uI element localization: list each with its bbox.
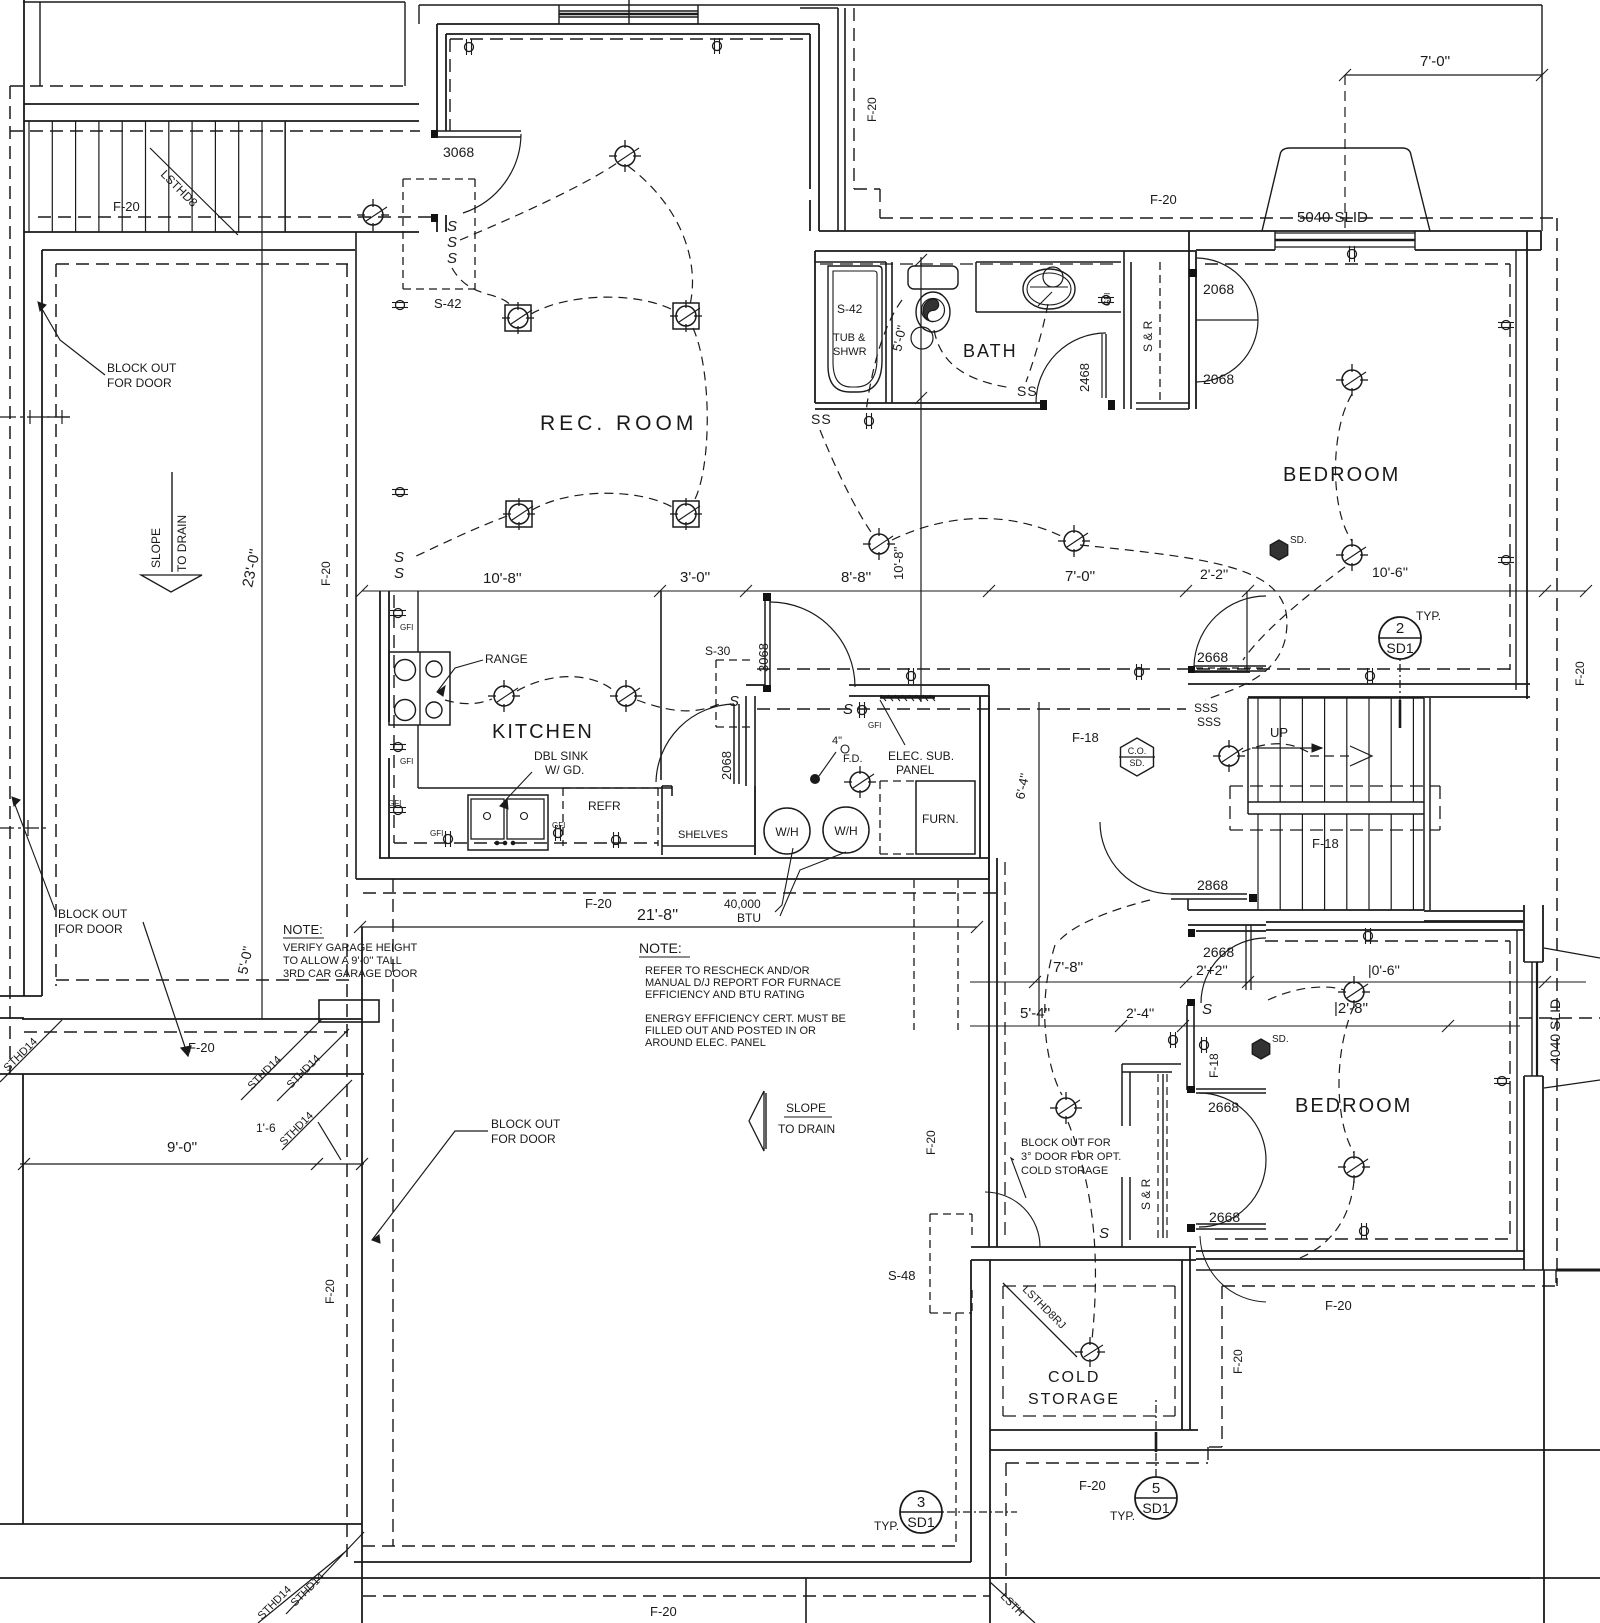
S-48 dashed box — [930, 1213, 972, 1215]
svg-text:BLOCK OUT: BLOCK OUT — [491, 1117, 561, 1131]
svg-text:TYP.: TYP. — [874, 1519, 899, 1533]
svg-text:BEDROOM: BEDROOM — [1295, 1095, 1412, 1117]
dim 7-0 top — [1345, 74, 1542, 76]
svg-text:STORAGE: STORAGE — [1028, 1391, 1120, 1408]
svg-text:ENERGY EFFICIENCY CERT. MUST B: ENERGY EFFICIENCY CERT. MUST BE — [645, 1013, 846, 1025]
bedroom2 SD hexagon — [1252, 1039, 1269, 1059]
stairs landing — [1248, 801, 1424, 803]
svg-text:GFI: GFI — [400, 623, 413, 632]
svg-text:F-20: F-20 — [1231, 1349, 1245, 1374]
bedroom2 south wall — [1196, 1250, 1524, 1252]
svg-text:C.O.: C.O. — [1128, 746, 1147, 756]
dim 21-8 line — [360, 926, 977, 928]
svg-text:FOR DOOR: FOR DOOR — [107, 376, 172, 390]
hall north wall — [849, 684, 989, 686]
stairwell left wall — [23, 0, 25, 250]
svg-text:7'-0'': 7'-0'' — [1420, 53, 1450, 70]
stair hall top wall — [24, 103, 419, 105]
svg-text:5040 SLID: 5040 SLID — [1297, 209, 1368, 226]
svg-text:|2'-8'': |2'-8'' — [1334, 1000, 1368, 1017]
rec room top wall — [437, 23, 819, 25]
kitchen south interior dashed — [394, 842, 658, 844]
svg-text:GFI: GFI — [1103, 293, 1112, 306]
svg-text:S-42: S-42 — [434, 296, 461, 311]
svg-text:FOR DOOR: FOR DOOR — [58, 922, 123, 936]
LSTHD8RJ diagonal — [1003, 1283, 1077, 1357]
svg-text:|0'-6'': |0'-6'' — [1368, 962, 1400, 978]
svg-text:REFER TO RESCHECK AND/OR: REFER TO RESCHECK AND/OR — [645, 965, 810, 977]
range — [389, 652, 450, 725]
rec room lights — [615, 146, 635, 166]
rec room west wall — [436, 24, 438, 131]
svg-text:10'-8'': 10'-8'' — [891, 547, 906, 580]
svg-text:2068: 2068 — [1203, 281, 1234, 297]
svg-text:W/H: W/H — [775, 825, 798, 839]
svg-text:10'-8'': 10'-8'' — [483, 570, 522, 587]
foundation dashed mid — [880, 217, 1557, 219]
door 2668 bedroom1 — [1194, 665, 1266, 667]
section markers left — [0, 827, 48, 829]
bottom right dashed rect — [1222, 1285, 1556, 1287]
kitchen lights — [494, 686, 514, 706]
dim 6-4 vertical — [1038, 702, 1040, 1026]
svg-text:F-20: F-20 — [188, 1040, 215, 1055]
upper wall strip right of rec room — [837, 8, 839, 231]
bedroom1 window 5040 — [1275, 232, 1415, 234]
bedroom2 east wall — [1516, 930, 1518, 1251]
svg-text:2'-2'': 2'-2'' — [1200, 566, 1228, 582]
svg-text:F-20: F-20 — [865, 97, 879, 122]
svg-text:F-20: F-20 — [650, 1604, 677, 1619]
svg-text:2868: 2868 — [1197, 877, 1228, 893]
svg-text:S: S — [1099, 1225, 1109, 1242]
svg-text:S & R: S & R — [1141, 320, 1155, 352]
svg-text:5'-4'': 5'-4'' — [1020, 1005, 1050, 1022]
svg-text:REC. ROOM: REC. ROOM — [540, 412, 697, 435]
svg-text:COLD STORAGE: COLD STORAGE — [1021, 1165, 1108, 1177]
svg-text:S: S — [394, 565, 404, 582]
svg-text:TO DRAIN: TO DRAIN — [175, 515, 189, 572]
blockout dashed top — [56, 979, 355, 981]
svg-text:VERIFY GARAGE HEIGHT: VERIFY GARAGE HEIGHT — [283, 942, 418, 954]
svg-text:TUB &: TUB & — [833, 332, 866, 344]
svg-text:S: S — [447, 234, 457, 251]
hall long wall — [988, 696, 990, 1247]
S-42 dashed box — [402, 179, 404, 289]
svg-text:GFI: GFI — [388, 799, 401, 808]
stair diagonal LSTHD8 — [150, 148, 238, 235]
slope to drain right — [749, 1091, 764, 1151]
dashed chase — [853, 8, 855, 189]
optional cold storage dashed wall — [955, 1313, 957, 1546]
bedroom2 outlets — [1364, 932, 1373, 941]
svg-text:REFR: REFR — [588, 799, 621, 813]
svg-text:F-20: F-20 — [323, 1279, 337, 1304]
svg-text:2068: 2068 — [719, 751, 734, 780]
svg-text:SD.: SD. — [1290, 535, 1307, 546]
door 2668 bottom arc — [1200, 1236, 1266, 1302]
rec circuit curves — [460, 163, 617, 240]
svg-text:7'-0'': 7'-0'' — [1065, 568, 1095, 585]
bedroom1 circuit — [1336, 394, 1353, 541]
vertical dim to SD1-5 — [1155, 1400, 1157, 1477]
svg-text:SS: SS — [811, 411, 832, 427]
svg-text:S: S — [1202, 1001, 1212, 1018]
cold storage light — [1081, 1343, 1099, 1361]
W/H heaters — [764, 808, 810, 854]
svg-text:SD.: SD. — [1272, 1034, 1289, 1045]
svg-text:S: S — [843, 701, 853, 718]
svg-text:BTU: BTU — [737, 911, 761, 925]
hall lights — [869, 534, 889, 554]
sd1 circle 5 — [1135, 1477, 1177, 1519]
sd1 circle 3 — [900, 1491, 942, 1533]
svg-text:NOTE:: NOTE: — [639, 940, 682, 956]
svg-text:2668: 2668 — [1208, 1099, 1239, 1115]
dim 9-0 line — [20, 1163, 364, 1165]
svg-text:AROUND ELEC. PANEL: AROUND ELEC. PANEL — [645, 1037, 766, 1049]
hall east wall — [979, 696, 981, 858]
svg-text:1'-6: 1'-6 — [256, 1121, 276, 1135]
svg-text:TYP.: TYP. — [1416, 609, 1441, 623]
svg-text:TO ALLOW A 9'-0'' TALL: TO ALLOW A 9'-0'' TALL — [283, 955, 402, 967]
bath circuit — [934, 330, 1012, 388]
kitchen-garage wall — [379, 857, 755, 859]
garage west wall — [23, 250, 25, 996]
svg-text:9'-0'': 9'-0'' — [167, 1139, 197, 1156]
bottom dashed right — [1556, 1285, 1558, 1287]
svg-text:F-20: F-20 — [924, 1130, 938, 1155]
dim row y=982 — [970, 981, 1586, 983]
svg-text:TYP.: TYP. — [1110, 1509, 1135, 1523]
stairwell bottom wall — [24, 231, 419, 233]
stairs up treads — [1257, 698, 1259, 802]
cold storage light circuit — [1056, 1098, 1076, 1118]
landing dashed F-18 box — [1230, 785, 1440, 787]
bedroom2 north wall — [1424, 910, 1523, 912]
svg-text:S-30: S-30 — [705, 644, 731, 658]
toilet — [908, 266, 958, 289]
furnace — [916, 781, 975, 854]
closet doors 2668 x2 — [1196, 1088, 1266, 1090]
svg-text:S: S — [394, 549, 404, 566]
tub — [828, 266, 882, 392]
bottom right vertical wall — [1543, 1270, 1545, 1623]
cold storage walls — [970, 1260, 972, 1562]
bedroom1 outlets — [1348, 250, 1357, 259]
door 2468 bath — [1036, 333, 1106, 403]
svg-text:F.D.: F.D. — [843, 753, 863, 765]
svg-text:W/H: W/H — [834, 824, 857, 838]
svg-text:GFI: GFI — [868, 721, 881, 730]
post at garage door east — [319, 1000, 379, 1022]
dim 23-0 vertical — [261, 232, 263, 1019]
svg-text:F-20: F-20 — [1573, 661, 1587, 686]
block out leader up-left — [12, 797, 55, 910]
bath dim vertical — [920, 257, 922, 702]
stairs top edge — [1248, 697, 1424, 699]
hall south wall — [755, 857, 989, 859]
door 3068 rec room — [431, 130, 438, 138]
svg-text:TO DRAIN: TO DRAIN — [778, 1122, 835, 1136]
bath south wall — [815, 402, 1045, 404]
bath north wall band — [819, 230, 1196, 232]
svg-text:SHWR: SHWR — [833, 346, 867, 358]
svg-text:KITCHEN: KITCHEN — [492, 721, 594, 743]
rec room interior dashed — [450, 38, 806, 40]
svg-text:RANGE: RANGE — [485, 652, 528, 666]
svg-text:MANUAL D/J REPORT FOR FURNACE: MANUAL D/J REPORT FOR FURNACE — [645, 977, 841, 989]
svg-text:FOR DOOR: FOR DOOR — [491, 1132, 556, 1146]
foundation dashed top-left — [10, 85, 409, 87]
bedroom1 north wall — [1196, 230, 1541, 232]
svg-text:UP: UP — [1270, 725, 1288, 740]
dim 5-0 rotated — [261, 416, 263, 418]
svg-text:2668: 2668 — [1197, 649, 1228, 665]
svg-text:EFFICIENCY AND BTU RATING: EFFICIENCY AND BTU RATING — [645, 989, 805, 1001]
dim extension 2-2 — [1246, 592, 1248, 672]
bottom mid vertical wall — [805, 1578, 807, 1623]
svg-text:SSS: SSS — [1194, 701, 1218, 715]
bottom left wall lines — [0, 1523, 362, 1525]
rec room outlets — [465, 43, 474, 52]
svg-text:ELEC. SUB.: ELEC. SUB. — [888, 749, 954, 763]
svg-text:3068: 3068 — [443, 144, 474, 160]
slope to drain left — [171, 472, 173, 572]
S-30 box and switch — [716, 659, 750, 661]
shelves closet — [661, 786, 663, 855]
garage side dashed S-48 area — [913, 880, 915, 1030]
svg-text:F-20: F-20 — [113, 199, 140, 214]
garage door blockout band — [22, 1018, 362, 1020]
svg-text:21'-8'': 21'-8'' — [637, 907, 678, 924]
S&R closet 2 walls — [1122, 1063, 1181, 1065]
svg-text:2: 2 — [1396, 620, 1404, 637]
svg-text:2068: 2068 — [1203, 371, 1234, 387]
svg-text:SSS: SSS — [1197, 715, 1221, 729]
kitchen GFI outlets — [394, 609, 403, 618]
bd2 closet west wall — [1186, 1005, 1188, 1090]
svg-text:S: S — [447, 218, 457, 235]
bottom mid dashed rect — [1006, 1462, 1208, 1464]
stairs light and circuit — [1219, 746, 1239, 766]
svg-text:SD1: SD1 — [1142, 1500, 1169, 1516]
svg-text:4040 SLID: 4040 SLID — [1547, 999, 1563, 1065]
hall outlet top — [907, 672, 916, 681]
bedroom1 SD hexagon — [1270, 540, 1287, 560]
svg-text:DBL SINK: DBL SINK — [534, 749, 588, 763]
window 4040 — [1531, 962, 1533, 1076]
window well east — [1544, 948, 1600, 958]
svg-text:PANEL: PANEL — [896, 763, 935, 777]
dim row y=1026 — [970, 1025, 1520, 1027]
STHD14 bottom-left corner — [286, 1532, 364, 1614]
svg-text:SHELVES: SHELVES — [678, 829, 728, 841]
svg-text:40,000: 40,000 — [724, 897, 761, 911]
S&R closet 1 — [1159, 262, 1161, 403]
kitchen east partial wall — [660, 591, 662, 780]
svg-text:F-20: F-20 — [1079, 1478, 1106, 1493]
svg-text:F-20: F-20 — [319, 561, 333, 586]
window well 5040 — [1262, 148, 1430, 231]
garage east wall — [355, 232, 357, 879]
svg-text:BATH: BATH — [963, 341, 1018, 361]
kitchen west wall — [379, 591, 381, 858]
garage west wall step — [0, 995, 42, 997]
svg-text:BLOCK OUT: BLOCK OUT — [58, 907, 128, 921]
svg-text:4": 4" — [832, 735, 842, 747]
svg-text:SLOPE: SLOPE — [149, 528, 163, 568]
svg-text:2668: 2668 — [1209, 1209, 1240, 1225]
svg-text:S: S — [447, 250, 457, 267]
bedroom1 south wall — [1188, 671, 1250, 673]
svg-text:F-18: F-18 — [1207, 1053, 1221, 1078]
stairs bottom wall — [1188, 909, 1424, 911]
upper floor outline top — [23, 1, 405, 3]
LSTHD8RJ bottom diagonal — [990, 1582, 1035, 1623]
svg-text:2468: 2468 — [1077, 363, 1092, 392]
svg-text:NOTE:: NOTE: — [283, 922, 323, 937]
svg-text:3° DOOR FOR OPT.: 3° DOOR FOR OPT. — [1021, 1151, 1121, 1163]
closet-bedroom wall — [1188, 231, 1190, 409]
rec room east wall — [809, 34, 811, 189]
svg-text:3'-0'': 3'-0'' — [680, 569, 710, 586]
door 2068 shelves — [733, 704, 735, 784]
east dashed jog — [1519, 1017, 1600, 1019]
stairs lower treads — [1257, 814, 1259, 910]
svg-text:2'+2'': 2'+2'' — [1196, 962, 1228, 978]
svg-text:SD1: SD1 — [907, 1514, 934, 1530]
svg-text:10'-6'': 10'-6'' — [1372, 564, 1408, 580]
dbl sink — [468, 795, 548, 850]
door 2868 — [1171, 893, 1247, 895]
bath counter — [975, 262, 977, 312]
svg-text:F-20: F-20 — [1325, 1298, 1352, 1313]
svg-text:S: S — [729, 693, 739, 710]
svg-text:F-18: F-18 — [1312, 836, 1339, 851]
svg-text:8'-8'': 8'-8'' — [841, 569, 871, 586]
bedroom1 east wall — [1515, 250, 1517, 690]
svg-text:S-42: S-42 — [837, 302, 863, 316]
door 3068 hall — [764, 601, 766, 685]
svg-text:5: 5 — [1152, 1480, 1160, 1497]
svg-text:SD.: SD. — [1129, 758, 1144, 768]
bedroom1 lights — [1342, 370, 1362, 390]
svg-text:BLOCK OUT: BLOCK OUT — [107, 361, 177, 375]
garage west wall lower — [22, 1074, 24, 1524]
svg-text:GFI: GFI — [430, 829, 443, 838]
svg-text:SD1: SD1 — [1386, 640, 1413, 656]
svg-text:F-20: F-20 — [585, 896, 612, 911]
cold storage door swing — [985, 1192, 1040, 1247]
bedroom1 interior dashed — [1205, 263, 1510, 265]
svg-text:F-20: F-20 — [1150, 192, 1177, 207]
kitchen north dim line — [362, 590, 1586, 592]
landing light — [363, 205, 383, 225]
bedroom2 interior dashed — [1265, 940, 1510, 942]
elec sub panel — [880, 695, 935, 698]
bath interior dashed — [820, 263, 1120, 265]
svg-text:3068: 3068 — [756, 643, 771, 672]
garage west inner dashed — [55, 264, 57, 986]
svg-text:S & R: S & R — [1139, 1178, 1153, 1210]
svg-text:SS: SS — [1017, 383, 1038, 399]
svg-text:7'-8'': 7'-8'' — [1053, 959, 1083, 976]
stair treads — [28, 121, 30, 232]
svg-text:FILLED OUT AND POSTED IN OR: FILLED OUT AND POSTED IN OR — [645, 1025, 816, 1037]
sd1 circle 2 — [1379, 617, 1421, 659]
svg-text:2'-4'': 2'-4'' — [1126, 1005, 1154, 1021]
svg-text:GFI: GFI — [400, 757, 413, 766]
rec room window top — [559, 10, 698, 12]
bath west wall — [814, 251, 816, 403]
svg-text:3: 3 — [917, 1494, 925, 1511]
svg-text:BLOCK OUT FOR: BLOCK OUT FOR — [1021, 1137, 1111, 1149]
svg-text:FURN.: FURN. — [922, 812, 959, 826]
wall left of stairs — [1187, 899, 1189, 910]
svg-text:F-18: F-18 — [1072, 730, 1099, 745]
svg-text:BEDROOM: BEDROOM — [1283, 464, 1400, 486]
STHD14 strap diagonals — [0, 1020, 62, 1082]
svg-text:S-48: S-48 — [888, 1268, 915, 1283]
svg-text:3RD CAR GARAGE DOOR: 3RD CAR GARAGE DOOR — [283, 968, 418, 980]
kitchen counter edge — [417, 591, 419, 652]
bedroom2 lights — [1344, 982, 1364, 1002]
cold storage dashed interior — [1003, 1285, 1175, 1287]
svg-text:W/ GD.: W/ GD. — [545, 763, 584, 777]
refr — [562, 788, 564, 846]
tub-toilet wall — [885, 262, 887, 403]
bath-closet wall — [1123, 251, 1125, 409]
svg-text:COLD: COLD — [1048, 1369, 1100, 1386]
svg-text:SLOPE: SLOPE — [786, 1101, 826, 1115]
